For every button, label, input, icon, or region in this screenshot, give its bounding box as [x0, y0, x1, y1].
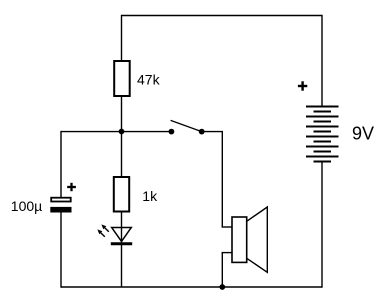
wire node A down to R2 — [121, 132, 123, 178]
battery BT1 cells — [306, 107, 339, 162]
wire bottom rail — [61, 286, 322, 288]
wire speaker bottom terminal stub — [222, 252, 233, 254]
wire down to speaker top terminal — [221, 131, 223, 227]
wire switch right contact to speaker corner — [202, 131, 223, 133]
svg-text:100µ: 100µ — [11, 198, 42, 214]
switch S1 lever — [171, 120, 202, 131]
speaker LS1 cone — [247, 207, 268, 272]
LED D1 emission arrow 2 — [101, 224, 108, 231]
wire speaker bottom terminal to ground rail — [221, 253, 223, 287]
battery BT1 polarity plus — [298, 81, 307, 90]
capacitor C1 top plate — [51, 198, 70, 202]
wire left drop from top rail to R1 — [121, 15, 123, 62]
svg-text:1k: 1k — [142, 188, 158, 204]
wire speaker top terminal stub — [222, 226, 233, 228]
wire right drop from top rail to battery — [321, 15, 323, 107]
wire capacitor branch drop — [60, 131, 62, 197]
resistor R2 1k body — [114, 177, 129, 212]
switch S1 left contact dot — [169, 129, 175, 135]
wire capacitor to bottom rail — [60, 213, 62, 288]
LED D1 emission arrow 1 — [97, 229, 104, 236]
node A junction dot — [119, 129, 125, 135]
capacitor C1 polarity plus — [67, 183, 76, 191]
speaker LS1 body rectangle — [232, 217, 247, 262]
wire R1 bottom to node A — [121, 96, 123, 132]
svg-text:47k: 47k — [137, 72, 161, 88]
LED D1 triangle — [112, 228, 132, 242]
node B junction dot on bottom rail — [219, 284, 225, 290]
wire mid rail from capacitor branch to switch left contact — [61, 131, 171, 133]
LED D1 cathode bar — [111, 242, 132, 245]
wire R2 bottom through LED to bottom rail — [121, 212, 123, 288]
svg-text:9V: 9V — [352, 124, 374, 144]
wire top rail — [122, 15, 323, 17]
resistor R1 47k body — [114, 61, 130, 96]
switch S1 right contact dot — [199, 129, 205, 135]
capacitor C1 bottom plate — [50, 207, 71, 213]
wire battery negative to bottom rail — [321, 162, 323, 288]
